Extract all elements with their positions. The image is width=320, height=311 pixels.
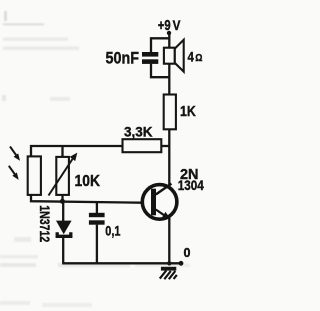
svg-text:+9: +9 xyxy=(158,18,171,34)
svg-text:Ω: Ω xyxy=(195,53,202,64)
svg-text:1K: 1K xyxy=(180,104,196,120)
svg-text:50nF: 50nF xyxy=(106,48,140,67)
svg-text:V: V xyxy=(173,17,181,33)
svg-text:4: 4 xyxy=(188,49,195,64)
svg-text:10K: 10K xyxy=(75,173,101,190)
svg-text:1304: 1304 xyxy=(178,177,204,193)
svg-text:0: 0 xyxy=(184,246,191,260)
svg-text:1N3712: 1N3712 xyxy=(37,205,53,242)
svg-text:0,1: 0,1 xyxy=(105,223,120,239)
svg-text:3,3K: 3,3K xyxy=(124,124,153,139)
